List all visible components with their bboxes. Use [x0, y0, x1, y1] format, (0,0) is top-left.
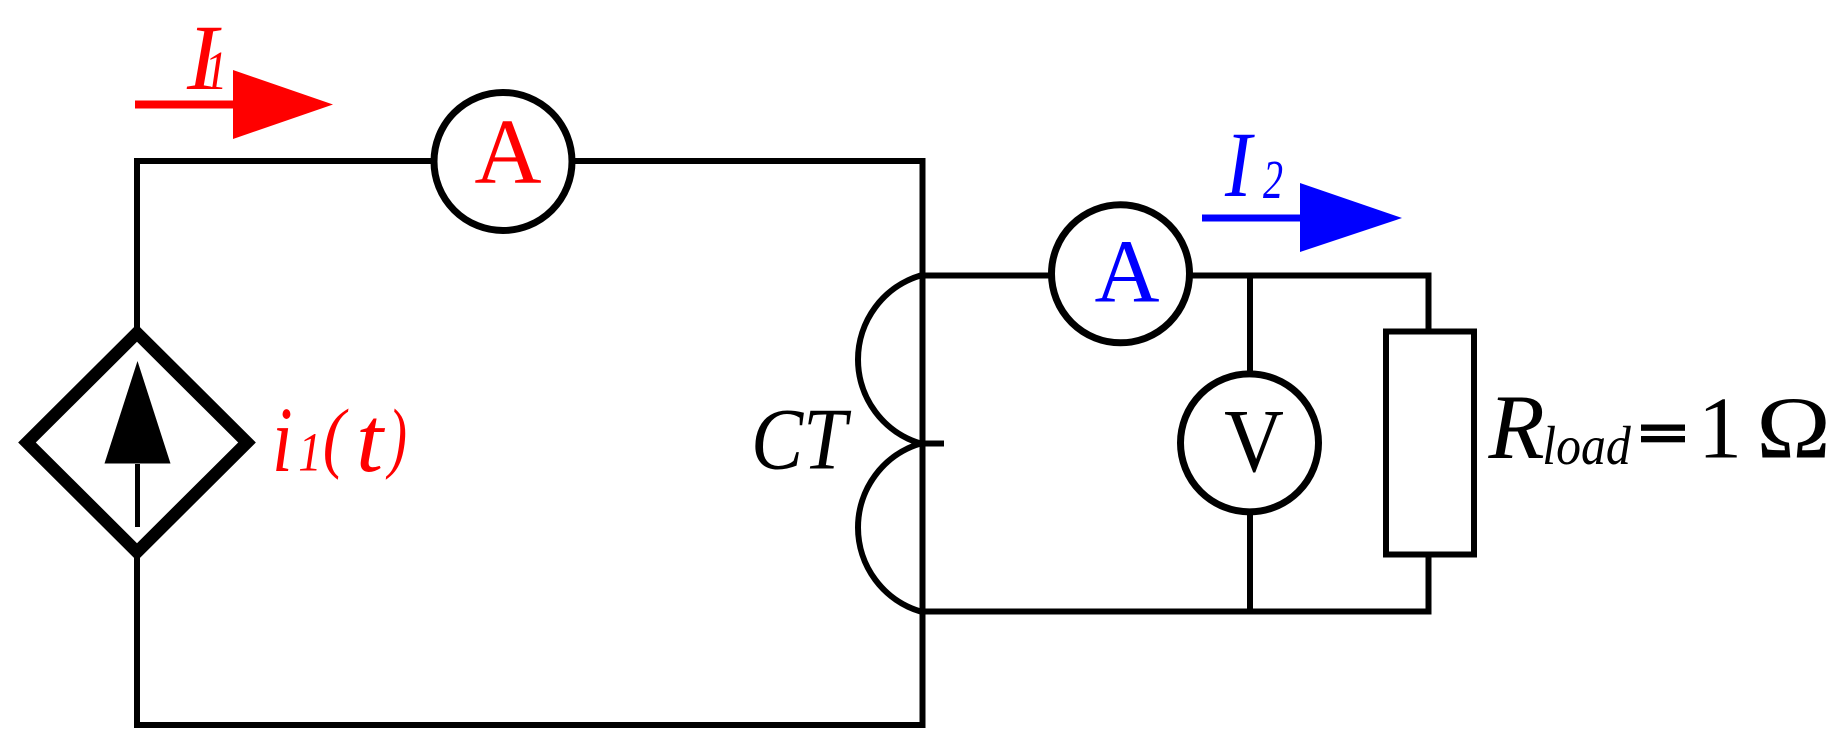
arrow I2 shaft — [1202, 215, 1303, 222]
svg-text:Ω: Ω — [1756, 380, 1831, 477]
svg-text:(: ( — [323, 393, 350, 480]
svg-text:load: load — [1542, 416, 1631, 477]
svg-text:t: t — [356, 388, 386, 491]
equals sign — [1641, 425, 1685, 431]
ammeter A2 circle — [1052, 205, 1190, 343]
svg-text:I: I — [1224, 113, 1255, 216]
svg-text:): ) — [385, 393, 407, 481]
CT winding middle tick — [921, 441, 945, 447]
voltmeter V letter — [1224, 391, 1284, 491]
arrow I1 head — [233, 70, 333, 139]
CT secondary winding arcs — [858, 276, 920, 612]
svg-text:1: 1 — [298, 423, 321, 483]
current source arrow head — [105, 361, 171, 464]
label I2 — [1224, 113, 1255, 216]
svg-text:2: 2 — [1263, 150, 1283, 211]
label i1(t) — [272, 389, 293, 492]
svg-text:i: i — [272, 389, 293, 492]
arrow I2 head — [1300, 183, 1402, 252]
current source arrow shaft — [135, 464, 140, 527]
unit ohm — [1756, 380, 1831, 477]
svg-text:CT: CT — [751, 391, 852, 488]
ammeter A1 circle — [434, 93, 572, 231]
svg-text:A: A — [1095, 223, 1160, 322]
wire secondary loop top/right/bottom — [920, 276, 1429, 612]
svg-text:1: 1 — [1698, 381, 1742, 478]
wire voltmeter branch — [1247, 276, 1253, 612]
arrow I1 shaft — [135, 101, 236, 109]
svg-text:1: 1 — [204, 40, 227, 101]
svg-text:A: A — [474, 101, 541, 204]
label CT — [751, 391, 852, 488]
label Rload subscript — [1542, 416, 1631, 477]
voltmeter V circle — [1181, 374, 1319, 512]
current source i1 diamond — [27, 333, 247, 552]
resistor Rload body — [1386, 332, 1474, 555]
wire primary loop — [137, 161, 923, 725]
svg-text:V: V — [1224, 391, 1284, 491]
svg-text:R: R — [1488, 376, 1545, 478]
